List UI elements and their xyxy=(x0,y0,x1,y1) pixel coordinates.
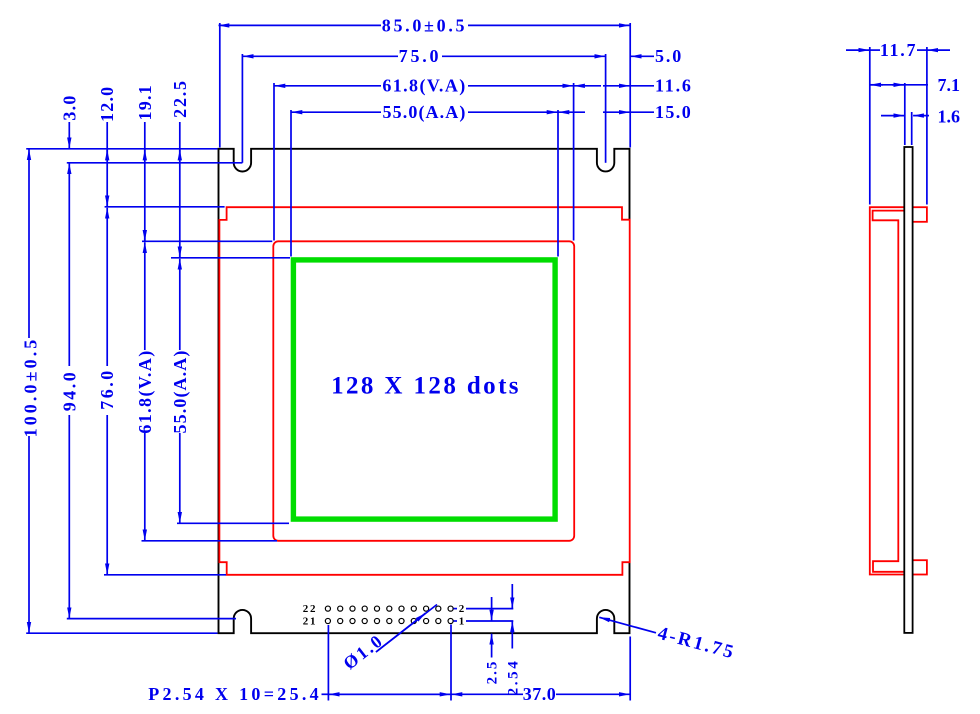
dimension 2.5 (row1 to body bottom) xyxy=(491,597,493,658)
svg-text:3.0: 3.0 xyxy=(59,94,79,120)
side view: top right tab (red) xyxy=(913,207,927,222)
dimension 11.7 (overall thickness) xyxy=(846,49,950,51)
svg-text:22: 22 xyxy=(303,603,317,615)
dimension 94.0 (slot center spacing) xyxy=(68,163,70,618)
leader 4-R1.75 (slot radius) xyxy=(599,617,656,633)
leader Ø1.0 (hole diameter) xyxy=(376,605,437,653)
svg-text:19.1: 19.1 xyxy=(135,84,155,120)
dimension 3.0 (slot center offset) xyxy=(68,122,70,148)
svg-text:100.0±0.5: 100.0±0.5 xyxy=(21,337,41,438)
svg-text:94.0: 94.0 xyxy=(59,370,79,412)
svg-text:37.0: 37.0 xyxy=(523,684,557,704)
svg-text:11.7: 11.7 xyxy=(880,40,917,60)
extension line body right bottom xyxy=(629,637,631,701)
svg-text:P2.54 X 10=25.4: P2.54 X 10=25.4 xyxy=(148,684,322,704)
extension line slot centers bottom xyxy=(67,618,236,620)
dimension 85.0±0.5 (overall width) xyxy=(219,23,631,148)
pin holes row 22..12 (top row) xyxy=(325,606,453,611)
svg-text:15.0: 15.0 xyxy=(655,102,692,122)
extension line glass bottom xyxy=(104,574,226,576)
svg-text:2: 2 xyxy=(459,603,465,615)
svg-text:1: 1 xyxy=(459,616,465,628)
svg-text:12.0: 12.0 xyxy=(97,86,117,122)
dimension 75.0 (between mount slot centers) xyxy=(242,54,605,163)
svg-text:128 X 128 dots: 128 X 128 dots xyxy=(331,373,521,400)
svg-text:61.8(V.A): 61.8(V.A) xyxy=(135,349,156,433)
extension line slot centers top xyxy=(67,162,243,164)
dimension 2.54 (row pitch) xyxy=(511,584,513,649)
svg-text:2.54: 2.54 xyxy=(505,659,521,696)
svg-text:61.8(V.A): 61.8(V.A) xyxy=(382,76,466,97)
extension line glass top xyxy=(105,206,225,208)
dimension 22.5 (body top to A.A) xyxy=(179,122,181,258)
extension line V.A bottom xyxy=(142,540,278,542)
svg-text:55.0(A.A): 55.0(A.A) xyxy=(383,102,467,123)
extension line pin22 column xyxy=(327,625,329,701)
dimension 100.0±0.5 (overall height) xyxy=(28,149,30,632)
dimension 15.0 (A.A to edge) xyxy=(559,111,655,113)
dimension 12.0 (body top to glass top) xyxy=(106,122,108,207)
active area A.A (green rectangle) xyxy=(293,260,555,519)
svg-text:85.0±0.5: 85.0±0.5 xyxy=(382,15,467,35)
side view: bottom right tab (red) xyxy=(913,560,927,574)
dimension 11.6 (V.A to edge) xyxy=(574,85,654,87)
extension line pin1 column xyxy=(450,625,452,701)
svg-text:11.6: 11.6 xyxy=(655,76,693,96)
extension line V.A top xyxy=(142,240,272,242)
side view: glass edge (black bar) xyxy=(904,147,912,633)
glass outline (red, stepped corners) xyxy=(219,207,629,575)
viewing area V.A (red rounded rectangle) xyxy=(273,241,574,541)
dimension 5.0 (slot center to edge) xyxy=(631,55,654,57)
svg-text:7.1: 7.1 xyxy=(938,75,961,95)
side view: bezel frame cross-section (red) xyxy=(870,207,905,574)
dimension 61.8(V.A) height xyxy=(144,242,146,540)
svg-text:2.5: 2.5 xyxy=(485,660,501,685)
LCD module body outline (front view) xyxy=(219,149,630,633)
dimension 55.0(A.A) height xyxy=(179,259,181,523)
svg-text:75.0: 75.0 xyxy=(399,46,442,66)
dimension 76.0 (glass height) xyxy=(106,208,108,575)
dimension P2.54 X 10=25.4 (pin pitch) xyxy=(322,693,451,695)
pin row 1 leader line xyxy=(454,620,514,622)
svg-text:5.0: 5.0 xyxy=(655,46,683,66)
svg-text:22.5: 22.5 xyxy=(170,79,190,118)
pin row 2 leader line xyxy=(454,608,514,610)
svg-text:55.0(A.A): 55.0(A.A) xyxy=(170,350,191,434)
svg-text:76.0: 76.0 xyxy=(97,368,117,410)
svg-text:21: 21 xyxy=(303,616,317,628)
side view extension lines xyxy=(870,47,927,205)
extension line body top xyxy=(26,148,217,150)
dimension 37.0 (pin1 to body edge) xyxy=(452,693,630,695)
dimension 1.6 (glass thickness) xyxy=(881,115,929,117)
dimension 7.1 xyxy=(870,84,928,86)
extension line A.A bottom xyxy=(177,522,289,524)
extension line body bottom xyxy=(26,632,217,634)
svg-text:1.6: 1.6 xyxy=(938,107,961,127)
pin holes row 21..1 (bottom row) xyxy=(325,618,453,623)
extension line A.A top xyxy=(171,257,290,259)
dimension 55.0(A.A) (active area width) xyxy=(291,110,558,257)
dimension 61.8(V.A) (viewing area width) xyxy=(274,83,574,241)
dimension 19.1 (body top to V.A) xyxy=(144,122,146,241)
